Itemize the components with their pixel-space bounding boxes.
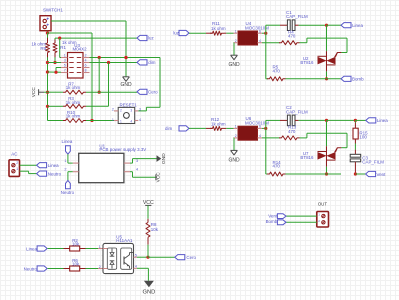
svg-text:4: 4 (259, 134, 261, 138)
svg-text:7: 7 (64, 69, 66, 73)
svg-text:Linea: Linea (352, 23, 363, 28)
svg-text:5: 5 (64, 64, 66, 68)
svg-text:6: 6 (259, 125, 261, 129)
svg-text:470: 470 (273, 69, 281, 74)
svg-text:100: 100 (359, 134, 367, 139)
svg-text:1: 1 (99, 245, 101, 249)
svg-text:1: 1 (64, 159, 66, 163)
svg-text:2: 2 (16, 161, 18, 165)
svg-text:1k ohm: 1k ohm (211, 122, 226, 127)
svg-text:3: 3 (64, 59, 66, 63)
svg-text:Neutro: Neutro (61, 190, 75, 195)
svg-text:1k ohm: 1k ohm (211, 26, 226, 31)
svg-text:3: 3 (139, 108, 141, 112)
svg-text:2: 2 (99, 265, 101, 269)
svg-text:VCC: VCC (156, 172, 162, 183)
svg-text:2: 2 (85, 54, 87, 58)
svg-text:6: 6 (85, 64, 87, 68)
svg-text:1: 1 (64, 54, 66, 58)
svg-text:RESET1: RESET1 (120, 103, 138, 108)
svg-text:2: 2 (120, 109, 122, 113)
svg-text:Cero: Cero (186, 255, 196, 260)
svg-text:1: 1 (16, 167, 18, 171)
svg-text:R9: R9 (40, 46, 46, 51)
svg-text:2: 2 (235, 134, 237, 138)
svg-text:GND: GND (161, 153, 167, 164)
svg-text:3: 3 (130, 109, 132, 113)
svg-text:Linea: Linea (48, 163, 59, 168)
svg-text:GND: GND (120, 82, 132, 88)
svg-text:R1: R1 (60, 45, 66, 50)
svg-text:Linea: Linea (377, 118, 388, 123)
svg-text:1: 1 (235, 29, 237, 33)
svg-text:OUT: OUT (318, 201, 328, 206)
svg-text:dim: dim (148, 60, 155, 65)
svg-text:10k: 10k (72, 262, 80, 267)
svg-text:Bomb: Bomb (266, 219, 278, 224)
svg-text:AC: AC (11, 151, 18, 156)
svg-text:4: 4 (85, 59, 87, 63)
svg-text:CAP_FILM: CAP_FILM (286, 109, 308, 114)
svg-text:2: 2 (235, 39, 237, 43)
svg-text:1: 1 (112, 118, 114, 122)
svg-text:4: 4 (259, 39, 261, 43)
svg-text:GND: GND (228, 62, 240, 68)
svg-text:10k: 10k (72, 242, 80, 247)
svg-text:470: 470 (288, 34, 296, 39)
svg-text:Linea: Linea (62, 139, 73, 144)
svg-text:1: 1 (235, 125, 237, 129)
svg-text:dim: dim (165, 126, 172, 131)
svg-text:BT816: BT816 (300, 155, 314, 160)
svg-text:luz: luz (173, 30, 179, 35)
svg-text:Vent: Vent (268, 214, 278, 219)
svg-text:2: 2 (64, 168, 66, 172)
svg-text:VCC: VCC (31, 87, 37, 98)
svg-text:Cero: Cero (148, 90, 158, 95)
svg-text:Neutro: Neutro (24, 267, 38, 272)
svg-text:Bomb: Bomb (352, 77, 364, 82)
svg-text:3: 3 (136, 159, 138, 163)
svg-text:470: 470 (288, 129, 296, 134)
svg-text:470: 470 (273, 164, 281, 169)
svg-text:1k ohm: 1k ohm (66, 85, 81, 90)
svg-text:M04X2: M04X2 (73, 47, 88, 52)
svg-text:CAP_FILM: CAP_FILM (362, 160, 384, 165)
svg-text:2: 2 (112, 108, 114, 112)
svg-text:BT816: BT816 (300, 60, 314, 65)
svg-text:6: 6 (259, 29, 261, 33)
svg-text:Linea: Linea (26, 246, 37, 251)
svg-text:1k ohm: 1k ohm (66, 113, 81, 118)
svg-text:H11AA1: H11AA1 (116, 238, 133, 243)
svg-text:PCB power supply 3.3V: PCB power supply 3.3V (99, 147, 146, 152)
svg-text:GND: GND (142, 289, 155, 295)
svg-text:GND: GND (228, 157, 240, 163)
svg-text:4: 4 (139, 118, 141, 122)
svg-text:4: 4 (136, 168, 138, 172)
svg-text:4: 4 (130, 119, 132, 123)
svg-text:SWITCH1: SWITCH1 (43, 8, 63, 13)
svg-text:1: 1 (120, 119, 122, 123)
svg-text:1k ohm: 1k ohm (66, 100, 81, 105)
svg-text:8: 8 (85, 69, 87, 73)
svg-text:CAP_FILM: CAP_FILM (286, 14, 308, 19)
svg-text:Vent: Vent (377, 172, 387, 177)
svg-text:10k: 10k (151, 227, 159, 232)
svg-text:Neutro: Neutro (48, 171, 62, 176)
svg-text:luz: luz (148, 36, 154, 41)
